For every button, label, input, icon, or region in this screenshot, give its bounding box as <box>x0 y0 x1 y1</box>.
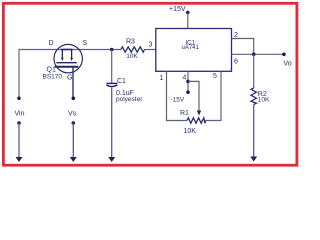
svg-text:+15V: +15V <box>169 6 186 13</box>
wire C1 to ground <box>111 88 113 158</box>
svg-text:Vo: Vo <box>284 60 292 67</box>
svg-text:3: 3 <box>149 42 153 49</box>
wire pin 4 <box>187 71 189 92</box>
svg-text:10K: 10K <box>126 53 138 60</box>
svg-text:D: D <box>49 40 54 47</box>
ground arrow R2 <box>250 157 257 162</box>
op-amp IC1 <box>156 29 232 72</box>
resistor R2 <box>251 88 256 105</box>
capacitor C1 <box>106 83 117 86</box>
wire pin 6 output <box>232 53 285 55</box>
node +15V <box>169 6 190 14</box>
resistor R1 <box>187 118 206 123</box>
wire junction to R2 <box>253 54 255 88</box>
svg-text:R1: R1 <box>180 110 189 117</box>
node Vin <box>15 97 25 118</box>
svg-text:4: 4 <box>183 75 187 82</box>
ground arrow C1 <box>108 157 115 162</box>
node Vo <box>282 53 292 68</box>
svg-text:10K: 10K <box>258 97 270 104</box>
svg-text:R3: R3 <box>126 39 135 46</box>
svg-text:5: 5 <box>213 73 217 80</box>
ground arrow Vs <box>70 121 77 162</box>
svg-text:S: S <box>83 40 88 47</box>
node C1 junction <box>110 48 114 52</box>
node feedback junction <box>252 53 256 57</box>
svg-text:uA741: uA741 <box>182 45 200 51</box>
svg-text:Vin: Vin <box>15 111 25 118</box>
resistor R3 <box>121 47 145 52</box>
wire +15V to pin7 <box>187 13 189 29</box>
svg-text:-15V: -15V <box>171 97 185 104</box>
wire main top rail <box>19 50 156 99</box>
node -15V <box>171 90 190 103</box>
ground arrow Vin <box>16 121 23 162</box>
wire pin 1 <box>167 71 188 120</box>
border frame <box>3 3 297 165</box>
svg-text:1: 1 <box>160 75 164 82</box>
svg-text:Q1: Q1 <box>47 67 56 74</box>
svg-text:10K: 10K <box>184 128 197 135</box>
node pin4 junction <box>186 80 190 84</box>
wire pin 5 <box>206 71 222 120</box>
svg-text:6: 6 <box>234 59 238 66</box>
svg-text:polyester: polyester <box>116 96 143 103</box>
svg-text:G: G <box>67 75 72 82</box>
wire R2 to ground <box>253 105 255 157</box>
arrow wiper R1 <box>197 111 201 116</box>
wire C1 branch <box>111 50 113 84</box>
transistor Q1 <box>54 44 82 98</box>
svg-text:C1: C1 <box>117 78 126 85</box>
node Vs <box>68 97 77 118</box>
svg-text:Vs: Vs <box>68 111 77 118</box>
wire wiper R1 <box>188 81 199 111</box>
svg-text:BS170: BS170 <box>43 74 63 81</box>
wire pin 2 feedback <box>232 39 254 55</box>
